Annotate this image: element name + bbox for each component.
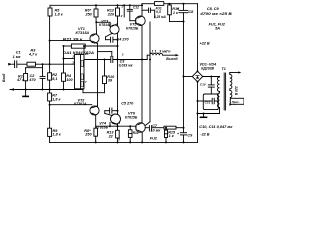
- junction node x142 y5.3: [141, 4, 143, 6]
- svg-text:5,1: 5,1: [52, 77, 57, 81]
- svg-text:7: 7: [85, 80, 87, 84]
- fuse FU1: [155, 2, 164, 6]
- svg-text:КТ361А: КТ361А: [74, 102, 87, 106]
- svg-text:0,033 мк: 0,033 мк: [119, 64, 133, 68]
- transformer T1 primary: [230, 74, 232, 105]
- wire input to op-amp: [36, 63, 75, 65]
- wire top rail step: [141, 4, 143, 6]
- wire R1 C2 branch: [42, 64, 44, 76]
- transformer T1 secondary: [217, 77, 219, 108]
- mains plug box: [230, 98, 244, 104]
- svg-text:1,8 к: 1,8 к: [55, 13, 64, 17]
- svg-text:1,8 к: 1,8 к: [53, 133, 62, 137]
- svg-text:47 к: 47 к: [16, 78, 25, 82]
- svg-text:FU2: FU2: [150, 136, 158, 140]
- wire right negative rail: [197, 82, 199, 143]
- svg-text:5А: 5А: [215, 27, 220, 31]
- wire main column: [117, 34, 119, 131]
- wire VT2 base lower: [50, 104, 92, 106]
- resistor R14: [129, 126, 131, 130]
- junction node x129.8 y5.3: [129, 4, 131, 6]
- svg-text:Т1: Т1: [222, 67, 226, 71]
- junction node x183.5 y76.5: [183, 76, 185, 78]
- junction node x183.5 y142.4: [183, 141, 185, 143]
- capacitor C12: [129, 5, 131, 9]
- wire output: [84, 59, 111, 61]
- capacitor C2: [40, 75, 45, 77]
- svg-text:КД202В: КД202В: [201, 67, 214, 71]
- junction node x183.5 y21.5: [183, 21, 185, 23]
- resistor R15: [165, 129, 167, 130]
- svg-text:С5 270: С5 270: [121, 101, 134, 105]
- ground: [25, 90, 27, 97]
- svg-text:Прос.: Прос.: [232, 100, 240, 104]
- resistor R9: [48, 128, 52, 136]
- resistor R10: [103, 76, 107, 84]
- junction node x197.5 y101: [197, 100, 199, 102]
- capacitor C11: [198, 100, 212, 102]
- junction node x197.5 y113.5: [197, 113, 199, 115]
- wire left ladder column: [49, 16, 51, 73]
- junction node x25.6 y89.5: [25, 89, 27, 91]
- svg-text:1 к: 1 к: [169, 134, 175, 138]
- wire to L1: [146, 55, 148, 59]
- junction node x183.5 y3.7: [183, 3, 185, 5]
- junction node x166 y127.7: [165, 127, 167, 129]
- svg-text:С10, С11 0,047 мк: С10, С11 0,047 мк: [199, 125, 232, 129]
- wire VT1 collector to VT2 base: [96, 21, 110, 23]
- resistor R3: [27, 62, 36, 66]
- capacitor C7: [148, 126, 150, 131]
- svg-text:4,7 к: 4,7 к: [28, 53, 38, 57]
- junction node x49.6 y104.7: [49, 104, 51, 106]
- junction node x142 y59.5: [141, 59, 143, 61]
- svg-text:4: 4: [118, 121, 121, 125]
- svg-text:100: 100: [66, 78, 73, 82]
- junction node x96 y5.3: [95, 4, 97, 6]
- wire balance pins stub: [123, 5, 125, 17]
- svg-text:1 к: 1 к: [173, 11, 179, 15]
- junction node x63.5 y46: [63, 45, 65, 47]
- resistor R16: [169, 4, 171, 5]
- svg-text:220 В: 220 В: [234, 85, 238, 96]
- svg-text:С8, С9: С8, С9: [207, 7, 220, 11]
- svg-text:0,25 мА: 0,25 мА: [154, 15, 166, 19]
- svg-text:КТ815Б: КТ815Б: [126, 27, 139, 31]
- junction node x166 y142.4: [165, 141, 167, 143]
- svg-text:L1 1...3 мкГн: L1 1...3 мкГн: [150, 50, 172, 54]
- svg-text:VT5: VT5: [130, 22, 138, 26]
- capacitor C4: [105, 37, 107, 40]
- wire top rail right part: [142, 3, 155, 5]
- resistor R13: [116, 130, 120, 138]
- junction node x49.6 y64.2: [49, 63, 51, 65]
- junction node x117.5 y39.7: [117, 39, 119, 41]
- svg-text:–22 В: –22 В: [200, 133, 210, 137]
- wire emitter column right: [149, 22, 151, 122]
- wire bottom rail: [50, 141, 198, 143]
- svg-text:4700 мк ×25 В: 4700 мк ×25 В: [199, 12, 232, 16]
- svg-text:С8: С8: [188, 10, 194, 14]
- resistor R2: [48, 73, 52, 80]
- svg-text:С1: С1: [16, 51, 21, 55]
- svg-text:1,8 к: 1,8 к: [52, 97, 61, 101]
- bridge VD1-VD4: [192, 71, 202, 82]
- wire secondary bottom: [219, 108, 221, 114]
- wire bridge to secondary top: [203, 76, 220, 78]
- svg-text:+: +: [177, 7, 179, 11]
- junction node x95.7 y142.4: [95, 141, 97, 143]
- junction node x84 y46: [83, 45, 85, 47]
- junction node x49.6 y89.5: [49, 89, 51, 91]
- capacitor C1: [14, 61, 16, 68]
- transistor VT2 lower: [90, 106, 99, 115]
- junction node x124.2 y5.3: [123, 4, 125, 6]
- svg-text:С11: С11: [205, 101, 211, 105]
- transformer core: [223, 73, 225, 110]
- capacitor C8: [183, 4, 185, 11]
- svg-text:КТ815Б: КТ815Б: [125, 115, 138, 119]
- capacitor C6: [142, 9, 148, 11]
- wire op-amp pin2: [64, 58, 75, 60]
- svg-text:R14: R14: [133, 131, 139, 135]
- input terminal: [8, 63, 12, 66]
- svg-text:3: 3: [122, 53, 124, 57]
- wire lower base bus: [96, 125, 136, 127]
- resistor R12: [117, 5, 119, 8]
- transistor VT5: [136, 16, 146, 26]
- wire emitter jog to C3: [98, 51, 112, 53]
- junction node x63.5 y89.5: [63, 89, 65, 91]
- common bus: [10, 89, 83, 91]
- svg-text:0,5: 0,5: [156, 10, 161, 14]
- resistor R7: [48, 93, 52, 101]
- junction node x117.5 y126.2: [117, 125, 119, 127]
- junction node x42.5 y64.2: [42, 63, 44, 65]
- resistor R1: [24, 74, 28, 81]
- svg-text:10 мк: 10 мк: [150, 128, 161, 132]
- wire VT1 emitter column: [97, 44, 99, 107]
- junction node x104.5 y59.5: [104, 59, 106, 61]
- svg-text:+22 В: +22 В: [200, 42, 210, 46]
- svg-text:250: 250: [85, 13, 93, 17]
- op-amp DA1: [75, 55, 85, 89]
- svg-text:Выход: Выход: [166, 57, 177, 61]
- svg-text:220: 220: [107, 13, 115, 17]
- junction node x130.2 y126.2: [129, 125, 131, 127]
- junction node x49.6 y40.6: [49, 40, 51, 42]
- junction node x117.5 y142.4: [117, 141, 119, 143]
- junction node x197.5 y81.8: [197, 81, 199, 83]
- svg-text:КТ816Б: КТ816Б: [96, 125, 109, 129]
- junction node x150 y59.5: [149, 59, 151, 61]
- junction node x197.5 y71.4: [197, 70, 199, 72]
- junction node x117.5 y110.7: [117, 110, 119, 112]
- capacitor C9: [180, 132, 186, 134]
- resistor R8: [94, 128, 98, 136]
- svg-text:КТ814Е: КТ814Е: [99, 23, 112, 27]
- svg-text:5: 5: [118, 138, 120, 142]
- svg-text:С12: С12: [133, 5, 139, 9]
- junction node x169.5 y3.7: [169, 3, 171, 5]
- junction node x63.5 y58.5: [63, 58, 65, 60]
- junction node x96.3 y22.3: [95, 21, 97, 23]
- resistor R4: [62, 73, 66, 81]
- svg-text:250: 250: [84, 133, 92, 137]
- junction node x211.3 y76.5: [210, 76, 212, 78]
- transistor VT2: [110, 25, 119, 34]
- junction node x42.5 y89.5: [42, 89, 44, 91]
- wire VT1 base: [50, 40, 92, 42]
- svg-text:DA1 К544УД2А: DA1 К544УД2А: [63, 51, 94, 55]
- junction node x142.2 y142.4: [141, 141, 143, 143]
- box around C11: [203, 94, 218, 110]
- capacitor C3: [110, 57, 112, 63]
- resistor R6: [95, 5, 97, 9]
- junction node x130.2 y142.4: [129, 141, 131, 143]
- junction node x203.5 y113.5: [203, 113, 205, 115]
- junction node x183.5 y127.7: [183, 127, 185, 129]
- svg-text:22: 22: [108, 134, 114, 138]
- capacitor C5: [104, 111, 106, 114]
- capacitor C10: [210, 77, 212, 85]
- svg-text:С9: С9: [187, 133, 193, 137]
- wire top rail left part: [50, 4, 142, 6]
- svg-text:2: 2: [120, 14, 123, 18]
- inductor L1: [147, 53, 175, 55]
- fuse FU2: [164, 126, 176, 129]
- svg-text:+: +: [177, 132, 179, 136]
- svg-text:С10: С10: [200, 83, 206, 87]
- wire right positive rail: [197, 4, 199, 72]
- svg-text:КТ315А: КТ315А: [76, 31, 90, 35]
- resistor R5: [49, 5, 51, 8]
- junction node x110 y126.2: [109, 125, 111, 127]
- ground transformer: [203, 114, 205, 118]
- svg-text:Вход: Вход: [2, 74, 6, 82]
- junction node x117.5 y59.5: [117, 59, 119, 61]
- transistor VT1: [90, 34, 99, 43]
- svg-text:R11 39 к: R11 39 к: [63, 37, 83, 41]
- svg-text:2: 2: [71, 54, 74, 58]
- svg-text:470: 470: [28, 78, 36, 82]
- wire inverting column: [63, 46, 65, 73]
- resistor R11 feedback: [64, 45, 72, 47]
- svg-text:39: 39: [108, 79, 113, 83]
- wire VT6 emitter to FU2: [145, 127, 149, 129]
- transistor VT4: [111, 114, 121, 124]
- transistor VT6: [136, 123, 146, 133]
- svg-text:1 мк: 1 мк: [13, 55, 22, 59]
- junction node x117.5 y46: [117, 45, 119, 47]
- svg-text:С4 270: С4 270: [117, 37, 130, 41]
- wire op-amp V- loop: [82, 90, 84, 93]
- junction node x117.5 y5.3: [117, 4, 119, 6]
- wire primary terminals: [229, 73, 231, 75]
